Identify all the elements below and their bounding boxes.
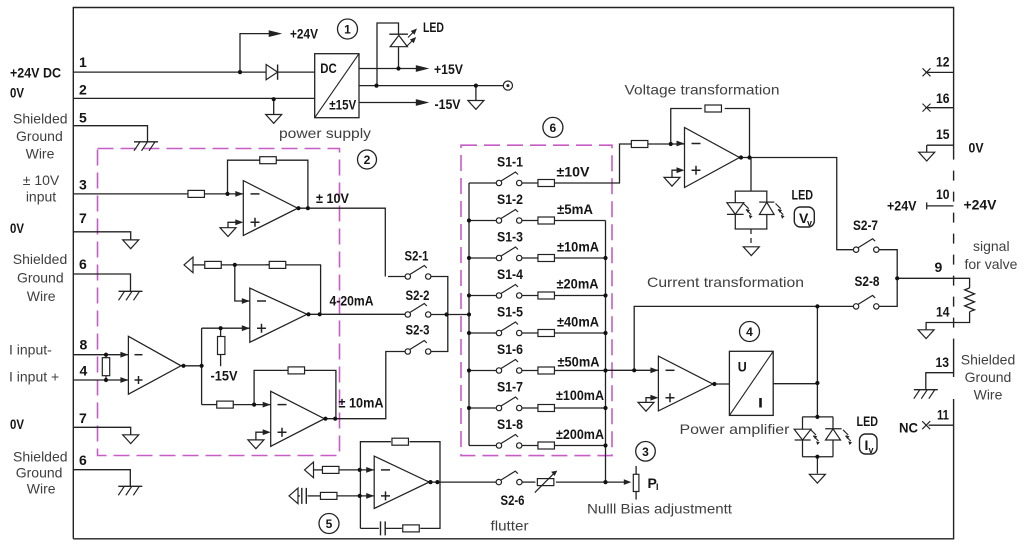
svg-text:+24V DC: +24V DC — [10, 65, 61, 81]
svg-text:+15V: +15V — [434, 61, 464, 77]
svg-text:13: 13 — [936, 354, 950, 370]
svg-text:S2-7: S2-7 — [853, 217, 878, 233]
svg-text:S1-1: S1-1 — [497, 154, 523, 170]
svg-text:+24V: +24V — [290, 26, 319, 42]
svg-text:3: 3 — [642, 445, 649, 459]
svg-text:for valve: for valve — [965, 256, 1018, 272]
svg-text:flutter: flutter — [491, 518, 529, 534]
svg-text:Ground: Ground — [16, 464, 63, 480]
svg-text:16: 16 — [936, 90, 950, 106]
svg-text:±200mA: ±200mA — [556, 426, 604, 442]
svg-text:8: 8 — [80, 337, 88, 353]
svg-text:3: 3 — [79, 177, 87, 193]
svg-text:Wire: Wire — [27, 480, 56, 496]
svg-text:S2-8: S2-8 — [855, 273, 880, 289]
svg-text:2: 2 — [79, 82, 87, 98]
svg-text:+24V: +24V — [964, 197, 998, 213]
svg-text:Nulll Bias adjustmentt: Nulll Bias adjustmentt — [587, 501, 732, 517]
svg-text:1: 1 — [79, 54, 87, 70]
svg-text:7: 7 — [79, 210, 87, 226]
svg-text:LED: LED — [423, 19, 444, 35]
svg-text:±100mA: ±100mA — [556, 387, 604, 403]
svg-text:+24V: +24V — [887, 198, 917, 214]
svg-text:Shielded: Shielded — [961, 352, 1016, 368]
svg-text:S1-2: S1-2 — [497, 191, 523, 207]
svg-text:NC: NC — [899, 420, 918, 436]
svg-text:Ground: Ground — [16, 128, 63, 144]
svg-text:7: 7 — [79, 410, 87, 426]
svg-text:±15V: ±15V — [329, 97, 357, 113]
svg-text:S1-5: S1-5 — [497, 304, 523, 320]
svg-text:0V: 0V — [10, 85, 25, 101]
svg-text:S2-6: S2-6 — [501, 492, 525, 508]
svg-text:DC: DC — [320, 60, 337, 76]
svg-text:2: 2 — [364, 153, 371, 167]
svg-text:S1-8: S1-8 — [497, 416, 523, 432]
svg-text:5: 5 — [326, 517, 333, 531]
svg-text:10: 10 — [936, 186, 950, 202]
svg-text:Power amplifier: Power amplifier — [680, 421, 790, 437]
svg-text:±40mA: ±40mA — [557, 314, 599, 330]
svg-text:± 10V: ± 10V — [23, 172, 60, 188]
svg-text:Voltage transformation: Voltage transformation — [625, 82, 780, 98]
svg-text:I input +: I input + — [9, 369, 59, 385]
svg-text:power supply: power supply — [279, 125, 371, 141]
svg-text:14: 14 — [936, 304, 950, 320]
svg-text:S1-7: S1-7 — [497, 379, 523, 395]
svg-text:5: 5 — [79, 110, 87, 126]
svg-text:Ground: Ground — [965, 369, 1012, 385]
svg-text:0V: 0V — [10, 416, 25, 432]
svg-text:Shielded: Shielded — [13, 448, 68, 464]
svg-text:0V: 0V — [969, 140, 985, 156]
svg-text:S1-4: S1-4 — [497, 266, 523, 282]
svg-text:±50mA: ±50mA — [558, 354, 600, 370]
svg-text:v: v — [869, 445, 874, 455]
svg-text:6: 6 — [550, 121, 557, 135]
svg-text:± 10V: ± 10V — [316, 190, 350, 206]
svg-text:I: I — [758, 395, 763, 411]
svg-text:Shielded: Shielded — [13, 110, 68, 126]
svg-text:S1-6: S1-6 — [497, 341, 523, 357]
svg-text:I input-: I input- — [9, 342, 52, 358]
svg-text:I: I — [656, 482, 659, 492]
svg-text:±10mA: ±10mA — [557, 239, 599, 255]
svg-text:4-20mA: 4-20mA — [330, 293, 374, 309]
svg-text:v: v — [807, 218, 812, 228]
svg-text:±10V: ±10V — [557, 164, 591, 180]
svg-text:-15V: -15V — [435, 96, 462, 112]
svg-text:Wire: Wire — [26, 145, 55, 161]
svg-text:Wire: Wire — [974, 387, 1003, 403]
svg-text:0V: 0V — [10, 220, 25, 236]
svg-text:± 10mA: ± 10mA — [339, 395, 384, 411]
svg-text:signal: signal — [973, 238, 1010, 254]
svg-text:Current transformation: Current transformation — [647, 274, 804, 290]
svg-text:Wire: Wire — [27, 288, 56, 304]
svg-text:15: 15 — [936, 126, 950, 142]
svg-text:input: input — [26, 189, 56, 205]
svg-text:4: 4 — [746, 325, 753, 339]
svg-text:4: 4 — [80, 363, 88, 379]
svg-text:±20mA: ±20mA — [557, 276, 599, 292]
svg-text:S1-3: S1-3 — [497, 229, 523, 245]
svg-text:U: U — [738, 359, 747, 375]
svg-text:9: 9 — [935, 259, 943, 275]
svg-text:6: 6 — [79, 256, 87, 272]
svg-text:LED: LED — [857, 413, 879, 429]
svg-text:Ground: Ground — [17, 270, 64, 286]
svg-text:S2-2: S2-2 — [406, 287, 430, 303]
svg-text:-15V: -15V — [211, 368, 239, 384]
svg-text:±5mA: ±5mA — [557, 201, 593, 217]
svg-text:11: 11 — [937, 407, 949, 423]
svg-text:Shielded: Shielded — [13, 251, 68, 267]
svg-text:S2-1: S2-1 — [405, 248, 429, 264]
svg-text:12: 12 — [936, 54, 950, 70]
svg-text:S2-3: S2-3 — [406, 322, 430, 338]
svg-text:LED: LED — [792, 187, 814, 203]
svg-text:1: 1 — [344, 23, 351, 37]
svg-text:6: 6 — [79, 452, 87, 468]
